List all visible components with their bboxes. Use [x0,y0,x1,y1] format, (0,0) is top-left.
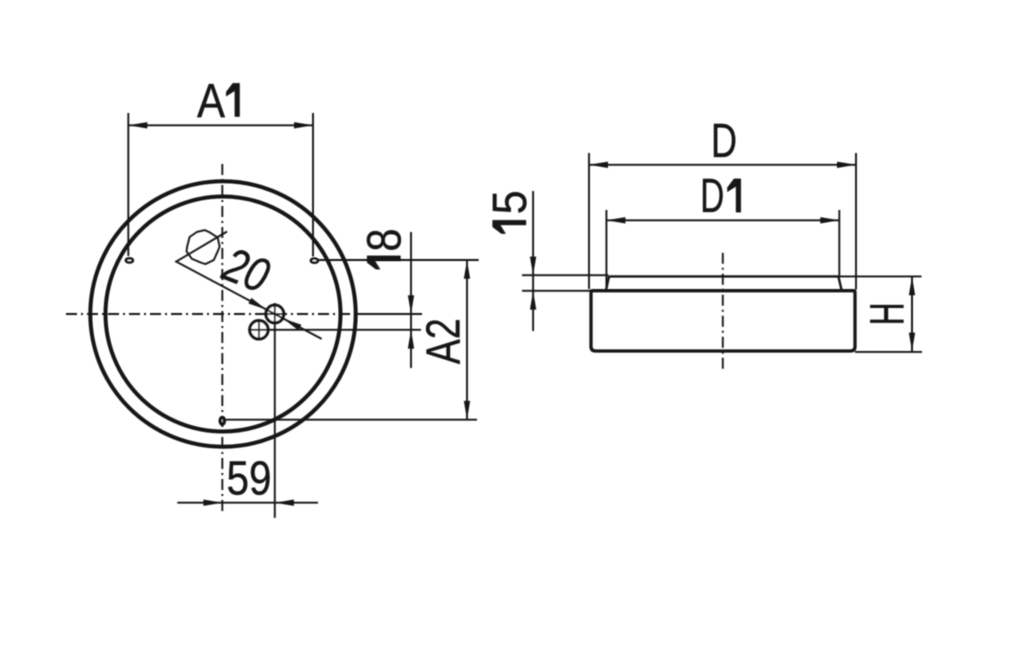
svg-text:D: D [711,115,737,168]
svg-text:5: 5 [484,190,537,214]
svg-text:8: 8 [359,229,412,252]
svg-text:A2: A2 [418,318,471,364]
svg-text:H: H [862,302,915,325]
svg-text:D: D [700,170,724,223]
svg-text:59: 59 [227,453,272,506]
svg-text:A: A [197,75,225,128]
